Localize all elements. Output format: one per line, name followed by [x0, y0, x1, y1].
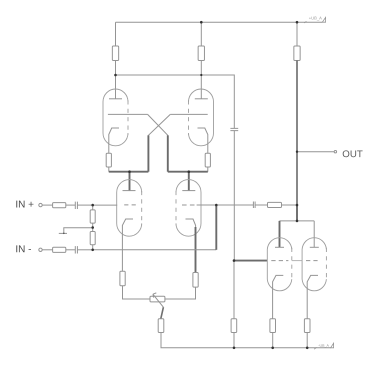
svg-text:+UB_A: +UB_A	[309, 16, 322, 21]
triode V4 envelope	[176, 180, 201, 237]
triode V6 grid dashed	[306, 260, 318, 262]
resistor R10 feedback	[268, 202, 282, 207]
resistor R2	[198, 46, 204, 61]
resistor R4 cathode V1	[106, 153, 111, 167]
wire input line IN+	[42, 204, 52, 206]
triode V4 cathode	[186, 219, 196, 228]
node grid V4	[215, 204, 218, 207]
wire plate lead V4	[188, 172, 190, 191]
wire V4 cathode thick	[195, 227, 197, 273]
node OUT tee	[296, 151, 298, 153]
triode V2 envelope	[189, 89, 214, 146]
triode V5 envelope	[267, 238, 292, 291]
capacitor C1	[75, 202, 77, 209]
resistor R1	[112, 46, 118, 61]
power flag +UB_A tick	[304, 21, 306, 23]
wire plate lead V5	[279, 221, 281, 247]
wire R5 bottom	[207, 167, 209, 172]
wire top supply rail	[116, 21, 323, 23]
wire C4 to node G	[233, 131, 235, 261]
resistor R14 tail of C4 chain	[231, 319, 237, 333]
wire R4 bottom	[108, 167, 110, 172]
wire P1 wiper to R13	[161, 307, 164, 319]
triode V4 grid dashed	[182, 204, 195, 206]
node rail R16	[306, 347, 309, 350]
capacitor C4	[230, 128, 238, 130]
resistor R6	[53, 203, 66, 208]
triode V2 grid	[170, 113, 207, 115]
node plate feed	[296, 220, 299, 223]
resistor R3	[294, 46, 300, 61]
capacitor C2	[75, 246, 77, 253]
wire R8 to node B	[92, 223, 94, 227]
node G	[233, 259, 236, 262]
node plate V1	[114, 74, 117, 77]
wire node plate V4 horizontal	[168, 171, 208, 173]
potentiometer P1 wiper arrow	[153, 293, 164, 307]
wire R6 to C1	[66, 204, 76, 206]
triode V5 grid dashed	[271, 260, 288, 262]
wire R3 top stub	[296, 22, 298, 46]
ground	[59, 232, 67, 234]
wire node A to R8	[92, 205, 94, 210]
wire riser to V4 grid node	[215, 205, 217, 250]
triode V3 plate	[123, 190, 136, 192]
wire R13 to negative rail	[161, 333, 331, 348]
wire C1 to node A	[77, 204, 92, 206]
resistor R13 tail	[158, 319, 164, 333]
wire plate lead V3	[129, 172, 131, 191]
wire node C to riser	[93, 249, 217, 251]
node rail R14	[233, 347, 236, 350]
triode V6 envelope	[302, 238, 326, 291]
node plate V4	[188, 170, 191, 173]
svg-text:OUT: OUT	[342, 149, 363, 160]
wire node A to V3 grid	[93, 204, 118, 206]
wire output bus	[296, 61, 298, 206]
triode V5 plate	[275, 246, 284, 248]
wire R1 top stub	[115, 22, 117, 46]
terminal IN-	[39, 248, 42, 251]
triode V3 envelope	[117, 180, 142, 237]
wire cross couple V2 grid to V3 plate	[148, 114, 170, 135]
power flag +UB_A triangle	[322, 17, 325, 22]
wire C3 to R10	[255, 204, 267, 206]
terminal IN+	[39, 203, 42, 206]
svg-text:IN +: IN +	[15, 200, 34, 211]
node plate V3	[128, 170, 131, 173]
node rail R15	[271, 347, 274, 350]
wire R12 to potentiometer	[165, 287, 196, 299]
resistor R16 cathode V6	[304, 319, 310, 333]
node C	[91, 249, 94, 252]
node plate V2	[200, 74, 202, 76]
wire R16 to rail	[306, 333, 308, 348]
node B	[91, 226, 94, 229]
node rail R2	[200, 21, 203, 24]
wire R7 to C2	[66, 249, 76, 251]
wire R10 to output bus	[282, 204, 298, 206]
potentiometer P1 body	[150, 296, 165, 302]
triode V4 plate	[182, 190, 195, 192]
resistor R8	[90, 210, 95, 223]
wire output bus to plate node	[296, 205, 298, 221]
wire plate lead V6	[313, 221, 315, 247]
triode V3 grid dashed	[124, 204, 136, 206]
wire R11 to potentiometer	[123, 286, 151, 299]
wire node G to V5 grid	[234, 260, 267, 262]
resistor R11 cathode V3	[120, 271, 125, 285]
triode V1 grid	[108, 113, 148, 115]
triode V1 cathode	[109, 128, 119, 153]
wire V4 grid to C3	[197, 204, 254, 206]
power flag -UB_A triangle	[331, 343, 334, 348]
resistor R7	[53, 247, 66, 252]
capacitor C3	[253, 202, 255, 209]
resistor R5 cathode V2	[205, 153, 210, 167]
wire C4 chain to rail	[233, 261, 235, 348]
triode V5 cathode	[273, 275, 284, 318]
triode V1 envelope	[103, 89, 128, 146]
wire C2 to node C	[77, 249, 92, 251]
triode V6 cathode	[307, 275, 318, 318]
wire grid link V5 V6	[292, 260, 302, 262]
resistor R15 cathode V5	[270, 319, 276, 333]
wire plate feed split	[280, 220, 315, 222]
node feedback bus	[296, 204, 299, 207]
svg-text:IN -: IN -	[15, 244, 31, 255]
triode V3 cathode	[122, 219, 133, 271]
wire R1 bottom to node plate V1	[115, 61, 117, 99]
wire R9 stubs	[92, 228, 94, 250]
wire R15 to rail	[272, 333, 274, 348]
wire R2 bottom to plate V2	[200, 61, 202, 99]
triode V6 plate	[310, 246, 319, 248]
wire plate bus to C4	[116, 75, 235, 128]
wire OUT	[297, 151, 334, 153]
node rail R3	[296, 21, 299, 24]
resistor R9	[90, 232, 95, 245]
wire node B to ground	[64, 228, 93, 234]
resistor R12 cathode V4	[193, 273, 198, 288]
wire cross couple V1 grid to V4 plate	[148, 114, 168, 135]
wire R2 top stub	[200, 22, 202, 46]
wire input line IN-	[42, 249, 52, 251]
triode V1 plate	[109, 98, 122, 100]
svg-text:-UB_A: -UB_A	[318, 344, 329, 348]
wire node plate V3 horizontal	[109, 171, 149, 173]
power flag -UB_A tick	[314, 347, 316, 349]
node A	[91, 204, 94, 207]
triode V2 cathode	[198, 128, 208, 153]
triode V2 plate	[195, 98, 208, 100]
terminal OUT	[334, 151, 336, 153]
